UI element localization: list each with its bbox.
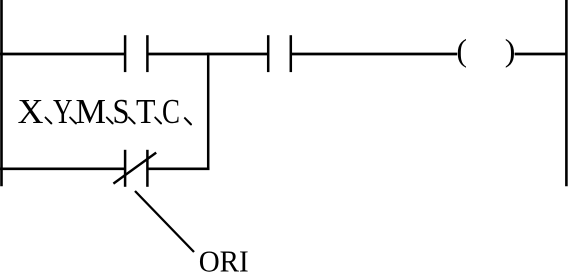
NC contact right bar (146, 150, 149, 187)
contact 1 NO left bar (124, 35, 127, 72)
NC contact left bar (124, 150, 127, 187)
ideographic comma after M (106, 116, 114, 124)
svg-text:T: T (136, 92, 156, 131)
svg-text:X: X (18, 92, 44, 131)
ideographic comma after T (154, 116, 162, 124)
wire branch vertical junction (207, 53, 210, 170)
svg-text:S: S (113, 92, 130, 131)
wire rung1 from contact 2 to coil (291, 53, 457, 56)
contact 2 NO left bar (267, 35, 270, 72)
svg-text:ORI: ORI (199, 245, 249, 273)
svg-text:Y: Y (53, 92, 73, 131)
ideographic comma after S (128, 116, 136, 124)
svg-text:M: M (76, 92, 107, 131)
wire branch rung from NC contact to junction (147, 167, 209, 170)
contact 1 NO right bar (146, 35, 149, 72)
svg-text:(: ( (456, 32, 467, 68)
left power rail (0, 0, 3, 186)
wire rung1 between contact 1 and contact 2 (147, 53, 268, 56)
ideographic comma after Y (69, 116, 77, 124)
wire from coil to right rail (515, 53, 568, 56)
svg-text:C: C (162, 92, 180, 131)
NC contact slash (113, 153, 156, 184)
contact 2 NO right bar (290, 35, 293, 72)
wire branch rung from left rail to NC contact (0, 167, 126, 170)
leader line from NC contact to ORI label (135, 191, 194, 252)
wire rung1 from left rail to contact 1 (0, 53, 126, 56)
ideographic comma after X (44, 116, 52, 124)
ideographic comma after C (184, 117, 192, 126)
right power rail (565, 0, 568, 186)
svg-text:): ) (505, 32, 516, 68)
